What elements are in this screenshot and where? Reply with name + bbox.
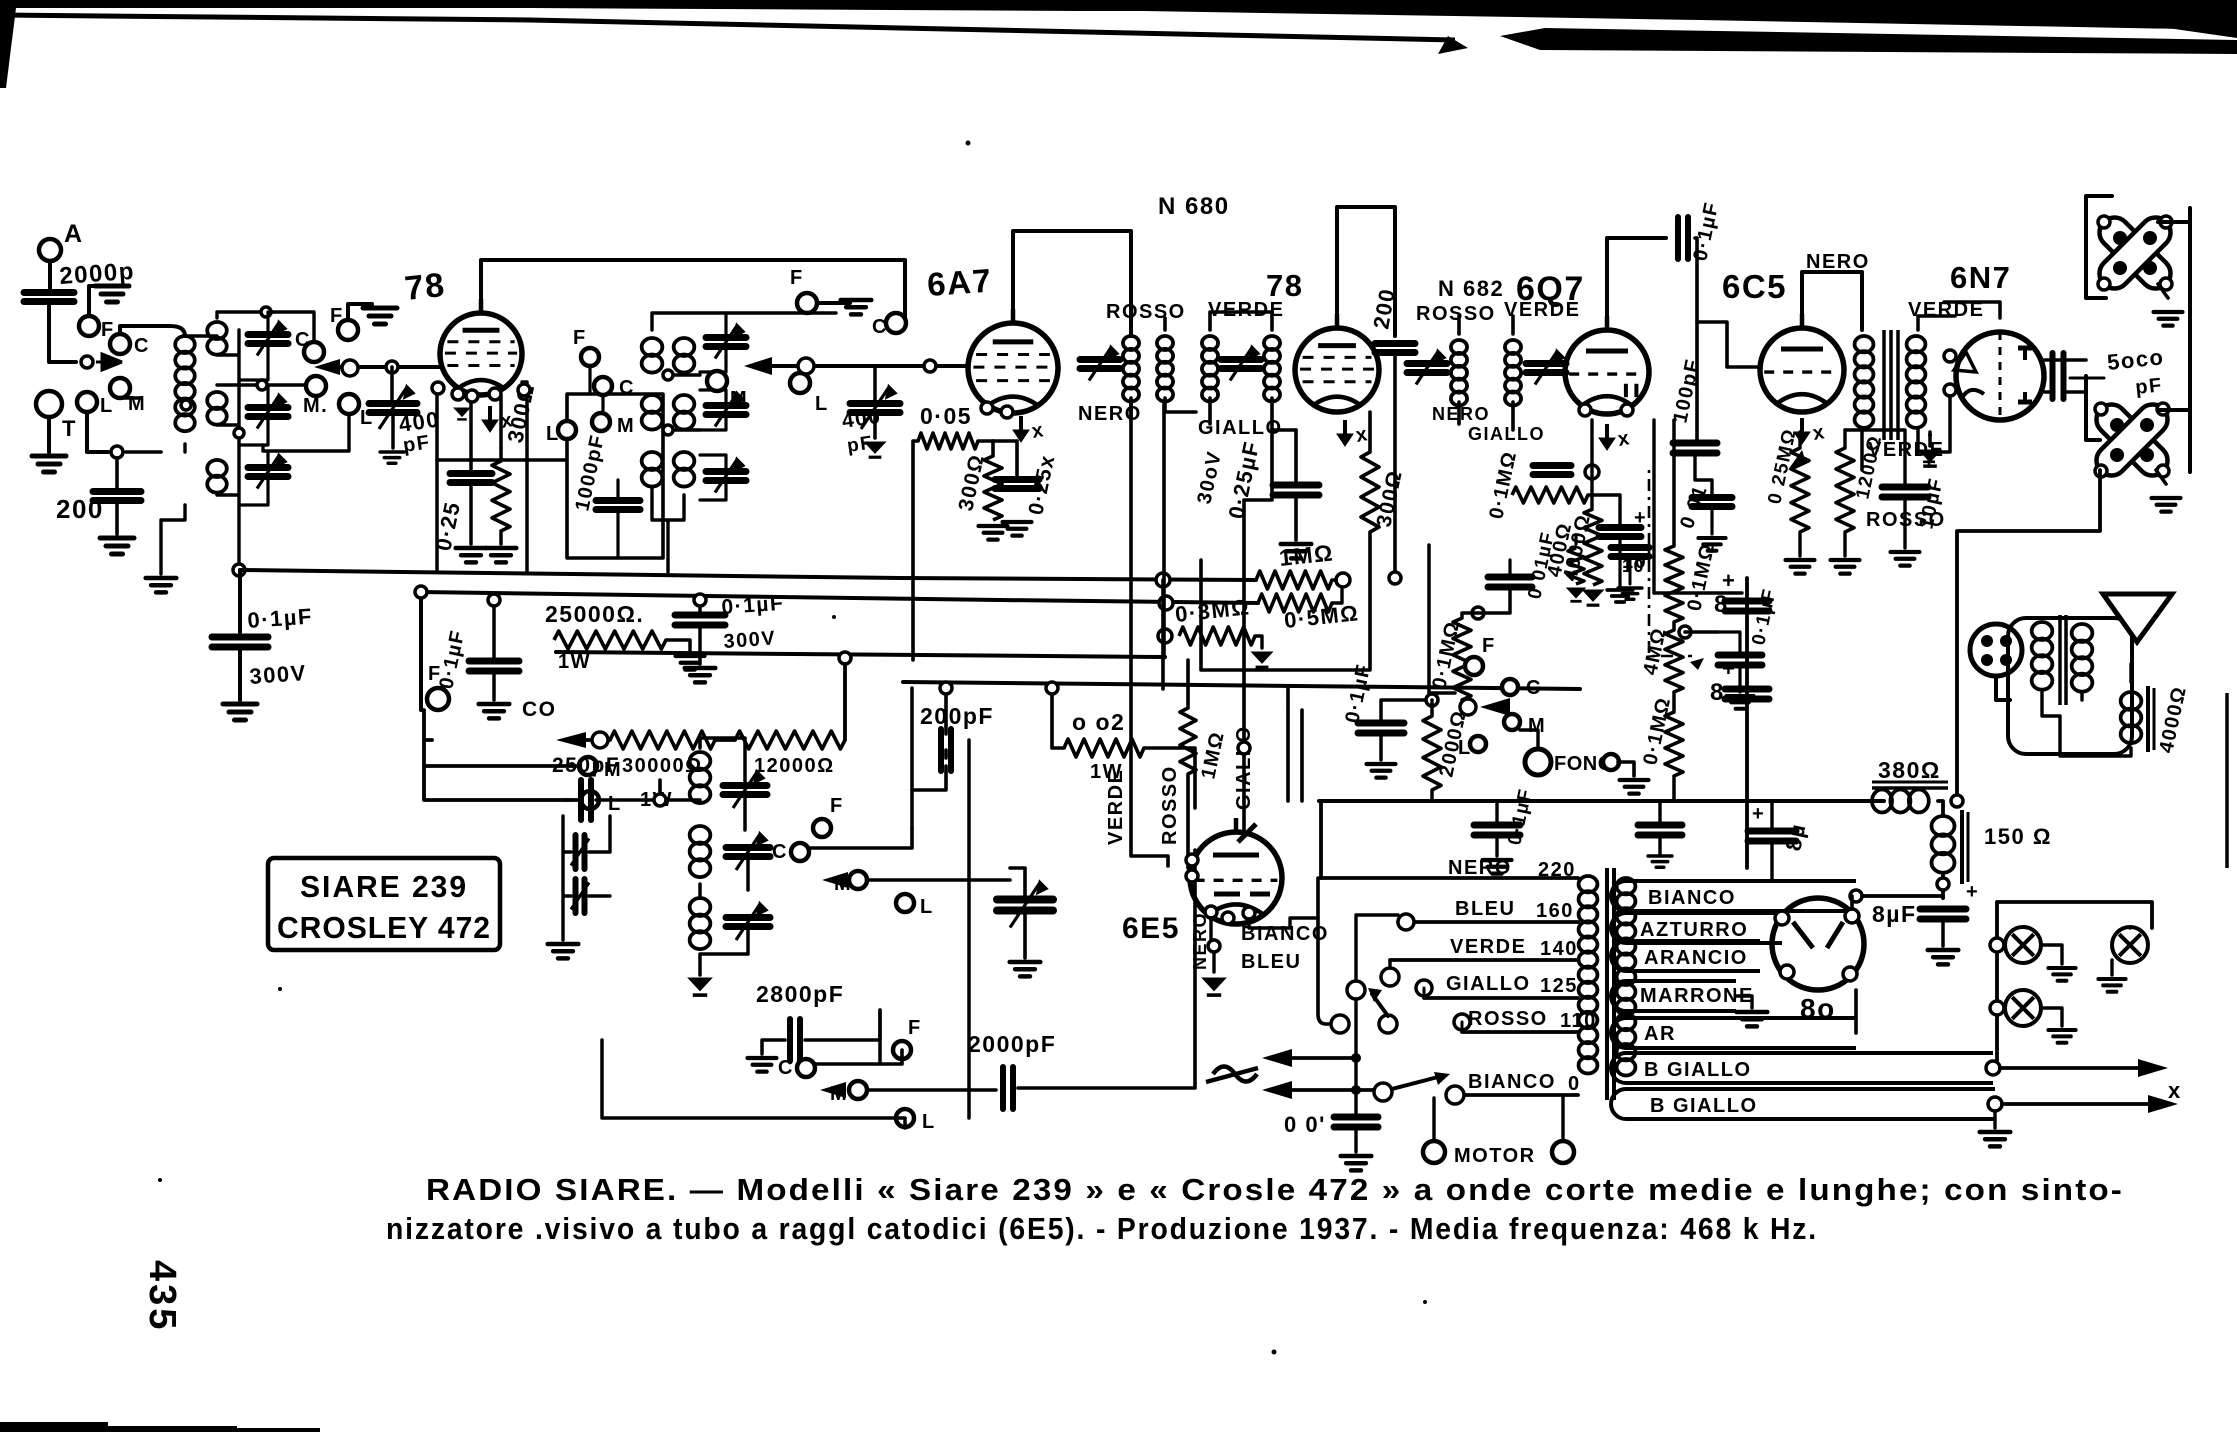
capacitor 1000pF: [596, 501, 640, 510]
wire CO row: [586, 738, 735, 742]
wire cap01 dn: [238, 648, 242, 700]
resistor 0.02 1W: [1064, 739, 1144, 757]
wire 01M out: [1674, 420, 1718, 801]
coil speaker primary: [2032, 622, 2053, 690]
coil osc 3: [690, 898, 711, 949]
wire IF2 tops: [1459, 316, 1513, 334]
terminal C osc2: [797, 1059, 815, 1077]
coil tuned 1c: [207, 460, 227, 493]
svg-text:pF: pF: [402, 431, 432, 457]
plug pins: [1981, 635, 2012, 666]
resistor 0.1Mohm out: [1665, 546, 1683, 622]
svg-text:M: M: [617, 415, 635, 437]
coil IF2 secondary: [1505, 340, 1521, 406]
junction bank2 a: [663, 370, 673, 380]
capacitor 200pF osc: [1375, 344, 1415, 353]
ground 10uF: [1891, 552, 1920, 566]
svg-text:L: L: [922, 1111, 936, 1133]
wire osc top: [563, 798, 572, 802]
svg-text:L: L: [608, 793, 622, 815]
ground det b: [1618, 588, 1642, 599]
wire 6E5 bottom: [1211, 918, 1214, 972]
svg-text:C: C: [772, 841, 788, 863]
svg-text:T: T: [62, 416, 77, 441]
trimmer arrow 400pF: [379, 387, 413, 429]
terminal M ant: [110, 378, 130, 398]
capacitor 200: [93, 492, 141, 501]
wire coil links 1: [120, 312, 314, 570]
wire cap01b: [492, 600, 496, 658]
svg-text:L: L: [100, 395, 114, 417]
selector contact arm: [1379, 1015, 1397, 1033]
wire 78 plate top: [481, 260, 905, 322]
svg-text:10: 10: [1622, 556, 1645, 576]
wire bgiallo2 gnd: [1993, 1111, 1996, 1128]
junction field: [1937, 878, 1949, 890]
wire cone: [2130, 652, 2134, 660]
junction 6N7 a: [1944, 350, 1956, 362]
terminal C fono: [1502, 679, 1518, 695]
wire giallo 6E5: [1244, 432, 1272, 830]
coil IF1 secondary: [1157, 336, 1173, 402]
choke core: [1872, 786, 1948, 790]
terminal L box: [558, 421, 576, 439]
svg-text:F: F: [330, 305, 344, 327]
junction 6Q7 det: [1585, 465, 1599, 479]
wire 6Q7 long vert: [1652, 420, 1655, 593]
svg-text:+: +: [1966, 881, 1979, 903]
ground 400pF V2: [865, 442, 886, 457]
wire 300 V1: [499, 448, 503, 544]
svg-text:ROSSO: ROSSO: [1106, 301, 1186, 323]
junction out mid: [1679, 626, 1691, 638]
svg-text:125: 125: [1540, 975, 1578, 997]
jack pick-up 1: [2093, 211, 2176, 294]
terminal F osc1: [813, 819, 831, 837]
wire left vert avc: [1161, 580, 1165, 689]
wire cap out: [1718, 632, 1740, 692]
junction coil mid a: [181, 400, 191, 410]
wire 6E5 right: [1249, 918, 1318, 928]
capacitor 0.1uF 300V left: [212, 637, 268, 647]
capacitor 10 det: [1611, 548, 1649, 557]
wire 10 det dn: [1629, 558, 1632, 584]
trimmer 400pF V1: [369, 404, 417, 413]
svg-text:M.: M.: [303, 395, 328, 417]
svg-text:6E5: 6E5: [1122, 912, 1180, 945]
ground fono: [1620, 780, 1649, 794]
trimmer capacitor 2-2: [706, 406, 746, 415]
wire bleu link: [1356, 915, 1398, 981]
svg-text:C: C: [1526, 677, 1542, 699]
svg-text:GIALLO: GIALLO: [1468, 424, 1545, 444]
resistor 300ohm 6A7: [984, 456, 1002, 520]
svg-text:435: 435: [141, 1260, 183, 1332]
junction 78 pin a: [432, 382, 444, 394]
ground cap avc: [1367, 764, 1396, 778]
svg-text:8o: 8o: [1800, 993, 1836, 1024]
wire selector drop: [1318, 878, 1330, 1024]
trimmer osc 1: [723, 786, 767, 795]
model label box: [268, 858, 500, 950]
svg-text:L: L: [920, 896, 934, 918]
svg-text:C: C: [778, 1057, 794, 1079]
coil IF2 primary: [1451, 340, 1467, 406]
capacitor 200pF: [941, 729, 951, 771]
resistor 4000 6Q7: [1584, 509, 1602, 585]
svg-text:300V: 300V: [723, 627, 777, 653]
svg-text:nizzatore .visivo a tubo a rag: nizzatore .visivo a tubo a raggl catodic…: [386, 1211, 1818, 1246]
wire 250pF right: [596, 780, 700, 800]
ground 4000: [1583, 590, 1604, 605]
svg-text:C: C: [295, 329, 311, 351]
terminal FONO: [1525, 749, 1551, 775]
svg-text:+: +: [1752, 803, 1765, 825]
wire if1 sec drop: [1162, 404, 1166, 658]
terminal C1: [110, 334, 130, 354]
terminal L osc2: [896, 1109, 914, 1127]
wire 78 cath: [437, 392, 501, 570]
wire C1 to coil: [120, 326, 185, 336]
wire choke right: [1938, 801, 1943, 814]
terminal T: [36, 391, 62, 417]
speaker wire box: [2008, 618, 2132, 754]
wire jack2 gnd: [2156, 470, 2166, 484]
tap term BLEU: [1398, 914, 1414, 930]
svg-text:CO: CO: [522, 698, 557, 721]
junction bianco: [1850, 890, 1862, 902]
coil antenna primary: [175, 336, 195, 431]
wire A to cap: [48, 261, 52, 288]
svg-text:F: F: [428, 663, 442, 685]
wire 6N7 out: [2044, 360, 2086, 392]
junction coil top: [261, 307, 271, 317]
wire L ant: [87, 412, 108, 452]
wire mains cap: [1354, 1128, 1357, 1152]
svg-text:C: C: [872, 316, 888, 338]
svg-text:AZTURRO: AZTURRO: [1640, 919, 1748, 941]
ground cap01 left: [223, 704, 257, 720]
resistor 0.1Mohm low: [1665, 712, 1683, 776]
wire 6C5 plate: [1802, 272, 1862, 330]
wire 1M end: [1332, 578, 1336, 581]
wire cap01b dn: [492, 672, 496, 700]
ground jack2: [2152, 498, 2181, 512]
pin 80 d: [1843, 967, 1857, 981]
wire 2800 right: [805, 1010, 880, 1040]
junction ant arrow: [81, 356, 93, 368]
trimmer 400pF V2: [850, 404, 900, 413]
wire cap 8c: [1770, 801, 1773, 881]
coil osc 2: [690, 826, 711, 877]
core transformer: [1605, 868, 1609, 1100]
svg-text:150 Ω: 150 Ω: [1984, 824, 2052, 849]
svg-text:140: 140: [1540, 938, 1578, 960]
mains arrow 2: [1262, 1081, 1292, 1099]
selector arm 2: [1392, 1077, 1438, 1089]
capacitor 8uF c: [1748, 831, 1796, 841]
junction 78 pin b: [452, 388, 464, 400]
x arrow 78 II: [1337, 420, 1353, 446]
wire 400pF V2 dn: [873, 366, 877, 438]
wire 002 wire: [1052, 688, 1195, 808]
svg-text:NERO: NERO: [1448, 857, 1512, 879]
ground lamp3: [2048, 1030, 2075, 1043]
bus line screen: [903, 682, 1580, 689]
tube 6E5: [1190, 818, 1282, 924]
wire 300 6A7: [991, 441, 995, 456]
svg-text:F: F: [1482, 635, 1496, 657]
wire rosso run: [1957, 470, 2100, 801]
arrow X2: [2148, 1095, 2178, 1113]
wire jack1 gnd: [2158, 284, 2168, 298]
wire interstage dn: [1860, 430, 1864, 470]
svg-text:78: 78: [403, 266, 448, 308]
wire osc vert drops: [880, 688, 912, 1064]
tap GIALLO 125: [1424, 996, 1578, 1000]
svg-text:ROSSO: ROSSO: [1468, 1008, 1548, 1030]
gang dash line: [1649, 470, 1692, 656]
ground 1200: [1831, 560, 1860, 574]
junction cap mid: [694, 594, 706, 606]
terminal F osc2: [893, 1041, 911, 1059]
coil tuned 1b: [207, 392, 227, 425]
wire 25000 gnd: [666, 640, 690, 652]
wire motor 2: [1561, 1097, 1564, 1141]
ground cap 0.25 6A7: [1003, 522, 1032, 536]
arrow fono: [1480, 698, 1510, 716]
svg-text:C: C: [619, 377, 635, 399]
capacitor 0.1uF coupling: [1678, 217, 1688, 259]
coil tuned 1a: [207, 322, 227, 355]
wire osc block: [700, 860, 748, 975]
wire supply link: [1654, 591, 1742, 594]
svg-text:GIALLO: GIALLO: [1446, 973, 1531, 995]
ground 6N7: [1919, 450, 1941, 466]
svg-text:F: F: [830, 795, 844, 817]
small trimmer arrow b: [571, 883, 589, 910]
junction 03M left: [1158, 629, 1172, 643]
wire CO bracket: [424, 710, 578, 800]
junction grid 6A7 b: [924, 360, 936, 372]
bus line output: [1319, 799, 1884, 803]
junction 6E5 p2: [1222, 912, 1234, 924]
pilot lamp 2: [2112, 927, 2148, 963]
pin 80 c: [1780, 965, 1794, 979]
wire F78 gnd: [348, 304, 372, 320]
wire cap025 dn: [469, 484, 473, 544]
capacitor 0.01 mains: [1334, 1117, 1378, 1127]
wire bianco to cap: [1856, 896, 1943, 898]
trimmer osc 3: [726, 918, 770, 927]
arrow wiper 6C5: [1788, 450, 1806, 470]
ground mains cap: [1341, 1156, 1372, 1170]
ground 300 6A7: [979, 526, 1008, 540]
wire bus to cap01: [238, 570, 242, 632]
capacitor 0.1uF bus: [1474, 825, 1520, 835]
svg-text:250pF: 250pF: [552, 754, 620, 777]
junction 6Q7 p2: [1621, 404, 1633, 416]
wire grid 6C5 b: [1697, 322, 1760, 367]
wire bus left vert: [419, 592, 423, 710]
capacitor 0.01 det out: [1692, 498, 1732, 507]
coil speaker secondary: [2072, 624, 2093, 692]
ground 0.25 V1: [456, 548, 487, 562]
ground F 78: [363, 308, 397, 324]
capacitor 0.1uF out: [1718, 655, 1762, 665]
wire trimmer links: [239, 312, 268, 505]
small trimmer a: [576, 835, 585, 869]
trimmer arrow 1: [257, 323, 285, 356]
mains junction 2: [1351, 1085, 1361, 1095]
ground 8uF out: [1928, 950, 1959, 964]
svg-text:VERDE: VERDE: [1504, 299, 1580, 321]
terminal F mid: [427, 688, 449, 710]
wire 6A7 plate top: [1013, 231, 1131, 336]
wire 6N7 gnd: [1928, 432, 1932, 446]
wire bgiallo1 arrow: [2000, 1066, 2140, 1070]
ground cap bus2: [1648, 856, 1672, 867]
tap term ROSSO: [1454, 1014, 1470, 1030]
trimmer IF1b: [1221, 360, 1261, 369]
variable arrow osc: [1010, 883, 1046, 928]
svg-text:0 0': 0 0': [1284, 1112, 1326, 1137]
tap term GIALLO: [1416, 980, 1432, 996]
svg-text:300V: 300V: [249, 660, 308, 689]
ground 78 pin: [454, 408, 470, 419]
capacitor 2800pF: [790, 1019, 800, 1061]
terminal L CO: [581, 791, 599, 809]
junction lamp1: [1990, 938, 2004, 952]
wire rosso 6E5: [1186, 660, 1190, 868]
capacitor 8uF a: [1725, 601, 1769, 611]
capacitor 250pF: [581, 780, 591, 820]
wire 5000 pointer: [2070, 377, 2104, 380]
wire 025M: [1798, 432, 1801, 556]
ground lamp1: [2048, 968, 2075, 981]
capacitor 2000pF: [1003, 1067, 1013, 1109]
wire heater drops: [1288, 689, 1302, 801]
svg-text:N 680: N 680: [1158, 193, 1230, 220]
svg-text:78: 78: [1266, 268, 1303, 303]
ground cap 200: [100, 538, 134, 554]
selector arm arrow: [1368, 988, 1382, 1002]
wire cap10 dn: [1618, 538, 1621, 586]
wire 001 det: [1710, 508, 1713, 534]
wire cap 300V mid: [698, 600, 702, 664]
resistor 1200 ohm: [1836, 448, 1854, 532]
capacitor 10 6Q7: [1599, 528, 1641, 537]
ground lamp2: [2098, 979, 2125, 992]
coil field 4000: [2121, 692, 2142, 743]
capacitor 8uF out: [1920, 909, 1966, 919]
bus line B+ lower: [421, 592, 1258, 603]
tube 6A7: [968, 309, 1058, 413]
terminal M fono: [1504, 714, 1520, 730]
wire L to coils: [126, 450, 161, 454]
svg-text:C: C: [134, 335, 150, 357]
trimmer arrow osc2: [736, 834, 766, 870]
ground 2800pF: [748, 1058, 777, 1072]
junction 78 pin d: [489, 388, 501, 400]
capacitor 0.01uF det: [1488, 577, 1532, 587]
wire IF2 bots: [1459, 402, 1513, 430]
wire avc res: [1429, 545, 1510, 714]
terminal M osc1: [849, 871, 867, 889]
wire to cap 200: [115, 458, 119, 488]
wire 80 plate: [1850, 896, 1854, 909]
trimmer arrow 2-1: [715, 326, 743, 359]
wire 2000pF right: [1018, 850, 1195, 1088]
resistor 300ohm 78II: [1361, 452, 1379, 532]
junction grid 78 b: [386, 361, 398, 373]
resistor 400 det: [1568, 548, 1584, 584]
wire F2 gnd: [817, 300, 850, 303]
coil tuned 2b: [642, 395, 663, 430]
small trimmer arrow a: [571, 839, 589, 866]
wire fono wire: [1520, 730, 1538, 749]
speaker cone: [2103, 594, 2172, 642]
capacitor 8uF b: [1725, 689, 1769, 699]
wire osc M2: [867, 1088, 996, 1092]
wire 78II plate top: [1337, 207, 1395, 336]
wire osc bottom loop: [602, 740, 969, 1128]
terminal M1b: [306, 376, 326, 396]
wire bank2 links: [652, 313, 836, 572]
flag AR: [1611, 1018, 1856, 1048]
bus line B+ upper: [240, 570, 1256, 580]
svg-text:L: L: [815, 393, 829, 415]
wire osc M1: [867, 878, 1010, 882]
svg-text:6C5: 6C5: [1722, 268, 1787, 305]
svg-text:RADIO SIARE. — Modelli « Siare: RADIO SIARE. — Modelli « Siare 239 » e «…: [426, 1172, 2124, 1207]
wire 0.05 right: [978, 439, 993, 443]
arrow X1: [2138, 1059, 2168, 1077]
junction bus1 left: [1156, 573, 1170, 587]
wire verde 6E5: [1131, 404, 1168, 866]
arrow into coil: [96, 354, 122, 370]
svg-text:BLEU: BLEU: [1455, 898, 1515, 920]
wire cap avc: [1381, 700, 1432, 760]
wire lamp bus: [1995, 902, 1999, 1068]
svg-text:ROSSO: ROSSO: [1416, 303, 1496, 325]
resistor 0.25Mohm 6C5: [1791, 448, 1809, 532]
svg-text:380Ω: 380Ω: [1878, 757, 1941, 783]
junction 002: [1046, 682, 1058, 694]
capacitor 0.25 6A7: [995, 480, 1039, 489]
terminal L osc1: [896, 894, 914, 912]
svg-text:2000pF: 2000pF: [968, 1031, 1056, 1057]
wire varcap up: [1010, 868, 1025, 898]
terminal L1b: [339, 394, 359, 414]
junction 6E5 g2: [1186, 870, 1198, 882]
wire 1000pF: [590, 366, 618, 558]
wire L1b: [263, 414, 349, 451]
resistor 0.5Mohm: [1258, 594, 1332, 612]
junction osc a: [654, 794, 666, 806]
junction 6A7 pins b: [1001, 406, 1013, 418]
terminal F ant: [79, 316, 99, 336]
ground 0.25uF 78II: [1281, 544, 1312, 558]
ground marrone: [1737, 1012, 1768, 1026]
junction rosso: [1951, 795, 1963, 807]
capacitor 0.1uF 300V mid: [675, 615, 725, 625]
svg-text:6N7: 6N7: [1950, 260, 2011, 295]
trimmer arrow IF2 sec: [1535, 352, 1563, 385]
capacitor 0.1uF avc: [1358, 723, 1404, 733]
flag BIANCO: [1611, 881, 1856, 911]
tap GIALLO stub: [1423, 988, 1426, 998]
